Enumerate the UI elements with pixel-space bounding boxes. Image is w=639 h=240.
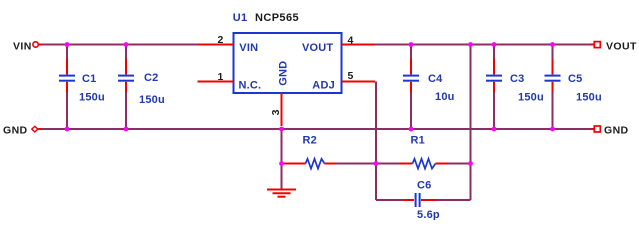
svg-text:4: 4 bbox=[348, 35, 354, 47]
port GND left terminal bbox=[32, 126, 42, 132]
svg-text:150u: 150u bbox=[518, 92, 544, 104]
capacitor C5 bbox=[545, 59, 602, 104]
svg-text:C2: C2 bbox=[144, 72, 158, 84]
capacitor C1 bbox=[59, 59, 105, 104]
svg-text:R2: R2 bbox=[303, 135, 317, 147]
junction C4 top bbox=[409, 42, 414, 47]
svg-text:U1: U1 bbox=[233, 12, 248, 24]
pin 2 bbox=[198, 44, 234, 46]
junction ADJ node bbox=[374, 161, 379, 166]
svg-text:C4: C4 bbox=[428, 73, 443, 85]
svg-text:5.6p: 5.6p bbox=[417, 209, 440, 220]
junction C4 bottom bbox=[409, 127, 414, 132]
port GND right terminal bbox=[590, 126, 600, 132]
port VOUT terminal bbox=[590, 42, 600, 48]
junction C5 top bbox=[550, 42, 555, 47]
svg-text:150u: 150u bbox=[576, 92, 602, 104]
wire C6 row left bbox=[376, 199, 414, 201]
junction C2 top bbox=[124, 42, 129, 47]
port VIN terminal bbox=[33, 42, 42, 47]
junction C2 bottom bbox=[124, 127, 129, 132]
svg-text:C3: C3 bbox=[510, 73, 524, 85]
wire bottom GND rail bbox=[41, 128, 591, 130]
junction R2 left bbox=[279, 161, 284, 166]
svg-text:150u: 150u bbox=[79, 92, 105, 104]
svg-text:VOUT: VOUT bbox=[302, 42, 333, 54]
svg-text:VOUT: VOUT bbox=[606, 41, 637, 53]
resistor R1 bbox=[400, 135, 448, 169]
capacitor C2 bbox=[118, 59, 165, 106]
wire ADJ vertical x376 bbox=[375, 82, 377, 201]
junction feedback node bbox=[468, 161, 473, 166]
capacitor C6 bbox=[403, 180, 440, 222]
op-amp U1 regulator NCP565 bbox=[234, 33, 342, 93]
svg-text:1: 1 bbox=[218, 71, 224, 83]
wire C3 vertical bottom bbox=[493, 91, 495, 129]
junction C3 bottom bbox=[492, 127, 497, 132]
pin 3 bbox=[281, 93, 283, 126]
capacitor C3 bbox=[486, 59, 544, 104]
wire C1 vertical bottom bbox=[66, 91, 68, 129]
wire R2 row bbox=[282, 163, 306, 165]
svg-text:GND: GND bbox=[278, 61, 290, 86]
junction C1 top bbox=[65, 42, 70, 47]
svg-text:3: 3 bbox=[270, 109, 282, 115]
svg-text:ADJ: ADJ bbox=[312, 79, 335, 91]
pin 1 bbox=[198, 81, 234, 83]
ground bbox=[267, 190, 296, 197]
svg-text:N.C.: N.C. bbox=[239, 79, 262, 91]
wire C6 row right bbox=[421, 199, 471, 201]
wire top-right rail pin4 to VOUT bbox=[374, 44, 591, 46]
wire gnd stem below rail bbox=[281, 129, 283, 189]
pin 5 bbox=[342, 81, 376, 83]
wire R1 to feedback node bbox=[436, 163, 471, 165]
wire C5 vertical bottom bbox=[552, 91, 554, 129]
junction feedback top bbox=[468, 42, 473, 47]
wire R2 to ADJ node bbox=[325, 163, 376, 165]
junction C3 top bbox=[492, 42, 497, 47]
wire C3 vertical top bbox=[493, 45, 495, 60]
wire C2 vertical bottom bbox=[125, 91, 127, 129]
svg-text:VIN: VIN bbox=[13, 41, 32, 53]
wire C2 vertical top bbox=[125, 45, 127, 60]
resistor R2 bbox=[284, 135, 336, 169]
svg-text:NCP565: NCP565 bbox=[255, 12, 299, 24]
svg-text:VIN: VIN bbox=[239, 42, 258, 54]
svg-text:150u: 150u bbox=[139, 94, 165, 106]
wire C4 vertical top bbox=[410, 45, 412, 60]
wire ADJ node to R1 bbox=[376, 163, 412, 165]
svg-text:GND: GND bbox=[3, 125, 28, 137]
wire C5 vertical top bbox=[552, 45, 554, 60]
wire feedback vertical x470 bbox=[470, 45, 472, 201]
wire C1 vertical top bbox=[66, 45, 68, 60]
wire C4 vertical bottom bbox=[410, 91, 412, 129]
svg-text:10u: 10u bbox=[435, 91, 455, 103]
svg-text:R1: R1 bbox=[411, 135, 425, 147]
svg-text:C5: C5 bbox=[568, 73, 582, 85]
capacitor C4 bbox=[403, 59, 455, 103]
svg-text:5: 5 bbox=[348, 70, 354, 82]
junction pin3 rail bbox=[279, 127, 284, 132]
svg-text:GND: GND bbox=[604, 125, 629, 137]
svg-text:2: 2 bbox=[218, 34, 224, 46]
svg-text:C1: C1 bbox=[82, 73, 96, 85]
svg-text:C6: C6 bbox=[417, 180, 431, 192]
junction C5 bottom bbox=[550, 127, 555, 132]
wire top-left rail VIN to pin2 bbox=[41, 44, 198, 46]
pin 4 bbox=[342, 44, 376, 46]
junction C1 bottom bbox=[65, 127, 70, 132]
